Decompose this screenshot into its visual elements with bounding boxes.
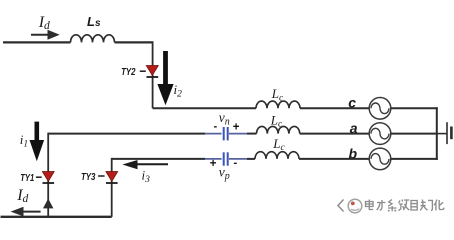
wire: line c to bus <box>391 107 438 109</box>
svg-text:b: b <box>349 145 358 161</box>
capacitor vn <box>224 127 228 140</box>
wire: TY2 vertical branch <box>152 41 154 108</box>
wire: from Ls to TY2 corner <box>115 41 153 43</box>
wire: bottom return rail <box>1 216 112 218</box>
svg-text:-: - <box>234 157 238 169</box>
wire: line a mid segment <box>247 133 257 135</box>
wire: line a to bus <box>391 133 438 135</box>
inductor Ls <box>71 35 115 43</box>
thyristor TY1 <box>42 172 54 184</box>
ground <box>447 122 451 144</box>
wire: line b blue segment right <box>229 158 247 160</box>
svg-text:TY2: TY2 <box>121 67 136 78</box>
svg-text:-: - <box>214 121 218 133</box>
svg-text:+: + <box>233 122 240 134</box>
capacitor vp <box>224 152 228 165</box>
svg-text:TY1: TY1 <box>20 173 34 184</box>
wire: line b to source <box>299 158 369 160</box>
svg-text:c: c <box>348 95 356 111</box>
wire: ground lead <box>437 133 447 135</box>
current arrow i3 (leftward) <box>122 160 168 169</box>
AC source a <box>369 123 391 145</box>
wire: line a blue segment left <box>205 133 222 135</box>
wire: line c to source <box>300 107 369 109</box>
wire: top-left DC rail <box>3 41 71 43</box>
current arrow i1 (thick) <box>30 122 45 162</box>
AC source b <box>369 148 391 170</box>
wire: line b to bus <box>391 158 438 160</box>
current arrow i2 (thick) <box>157 51 173 105</box>
current arrow Id (bottom, leftward) <box>11 207 41 217</box>
wire: line b blue segment left <box>205 158 222 160</box>
watermark logo <box>338 199 362 213</box>
AC source c <box>369 98 391 120</box>
current arrow Id (top) <box>31 30 60 40</box>
inductor Lc (phase a) <box>257 126 300 133</box>
thyristor TY2 <box>146 66 158 78</box>
wire: TY3 vertical branch <box>111 158 113 217</box>
svg-text:+: + <box>210 158 217 170</box>
svg-text:a: a <box>350 120 358 136</box>
wire: line a to source <box>300 133 369 135</box>
wire: right vertical bus <box>436 107 438 160</box>
wire: line a left segment (black) <box>48 133 205 135</box>
watermark text 电力系统自动化 <box>366 200 444 212</box>
inductor Lc (phase b) <box>255 152 299 159</box>
wire: line b mid segment <box>247 158 255 160</box>
thyristor TY3 <box>106 172 118 184</box>
inductor Lc (phase c) <box>256 101 300 108</box>
wire: TY1 vertical branch <box>47 133 49 217</box>
arrowhead up on TY1 branch <box>43 199 53 209</box>
wire: line a blue segment right <box>229 133 247 135</box>
wire: line b left segment (black) <box>112 158 205 160</box>
wire: line c left segment <box>153 107 256 109</box>
svg-text:TY3: TY3 <box>81 172 96 183</box>
